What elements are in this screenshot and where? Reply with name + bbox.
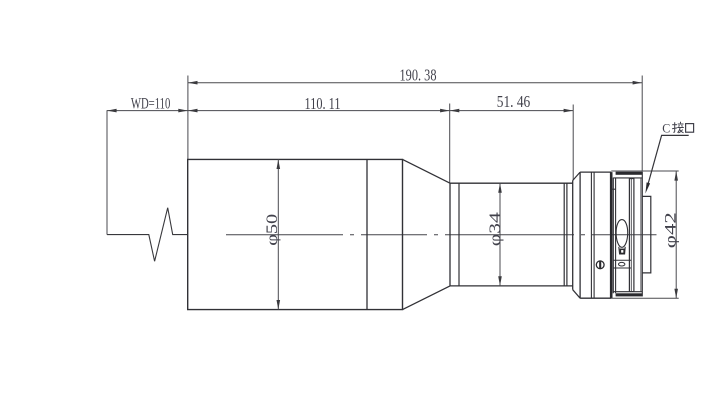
phi34 tube outline bbox=[450, 183, 573, 286]
dimension line 110.11 bbox=[188, 110, 450, 112]
rear ring lines bbox=[613, 178, 615, 294]
extension line 51.46 right bbox=[572, 105, 574, 181]
center line axis dash-dot bbox=[226, 234, 657, 236]
rear ring tick bbox=[611, 188, 615, 190]
svg-text:φ34: φ34 bbox=[487, 212, 504, 246]
svg-text:φ42: φ42 bbox=[662, 212, 679, 248]
barrel phi50 outline bbox=[188, 159, 403, 309]
cone top edge bbox=[403, 159, 451, 183]
hanzi kou (mouth) bbox=[686, 124, 694, 133]
extension line 110.11 right bbox=[449, 104, 451, 183]
flange bottom edge bbox=[580, 297, 611, 299]
flange chamfer bottom bbox=[573, 290, 580, 299]
flange top edge bbox=[580, 171, 611, 173]
extension line 190.38 right bbox=[641, 76, 643, 171]
dimension line 190.38 bbox=[188, 82, 642, 84]
dimension line 51.46 bbox=[450, 110, 574, 112]
phi42 extension top bbox=[611, 170, 678, 172]
flange phi42 left edge bbox=[572, 181, 574, 290]
dim phi42 line bbox=[675, 171, 677, 298]
leader line C-mount bbox=[647, 135, 689, 188]
svg-text:WD=110: WD=110 bbox=[131, 96, 171, 113]
thumbscrew slot oval bbox=[616, 220, 628, 248]
tube inner lines right bbox=[564, 183, 567, 286]
thumbscrew foot bbox=[619, 247, 625, 254]
svg-text:190. 38: 190. 38 bbox=[400, 66, 437, 85]
extension line WD left bbox=[106, 110, 108, 234]
rear top inner line bbox=[613, 177, 642, 179]
rear face plate lines bbox=[640, 178, 642, 292]
flange right edge thick bbox=[610, 172, 613, 298]
dimension line WD=110 bbox=[107, 110, 188, 112]
rear bottom inner line bbox=[613, 291, 642, 293]
rear bottom thick bar bbox=[616, 293, 643, 296]
svg-text:51. 46: 51. 46 bbox=[497, 92, 531, 111]
set screw hole lines bbox=[613, 260, 631, 268]
rear inner verticals bbox=[629, 179, 634, 292]
svg-text:φ50: φ50 bbox=[264, 214, 281, 246]
flange chamfer top bbox=[573, 172, 580, 180]
rear top thick bar bbox=[616, 172, 643, 175]
flange groove lines bbox=[591, 172, 594, 298]
flange face line bbox=[579, 172, 581, 298]
set screw ellipse bbox=[619, 262, 625, 266]
C-mount thread stub bbox=[642, 196, 651, 273]
barrel inner line bbox=[366, 159, 368, 309]
center line left with break symbol bbox=[107, 208, 188, 262]
dim phi50 line bbox=[277, 159, 279, 309]
dim phi34 line bbox=[499, 183, 501, 286]
svg-text:110. 11: 110. 11 bbox=[305, 94, 341, 113]
phi42 extension bottom bbox=[611, 297, 678, 299]
extension line body left bbox=[187, 76, 189, 160]
svg-text:C: C bbox=[662, 120, 670, 135]
screw head on flange bbox=[596, 261, 604, 269]
hanzi jie (interface) stroke drawing bbox=[672, 122, 684, 133]
tube inner line left bbox=[458, 183, 460, 286]
cone bottom edge bbox=[403, 286, 451, 310]
